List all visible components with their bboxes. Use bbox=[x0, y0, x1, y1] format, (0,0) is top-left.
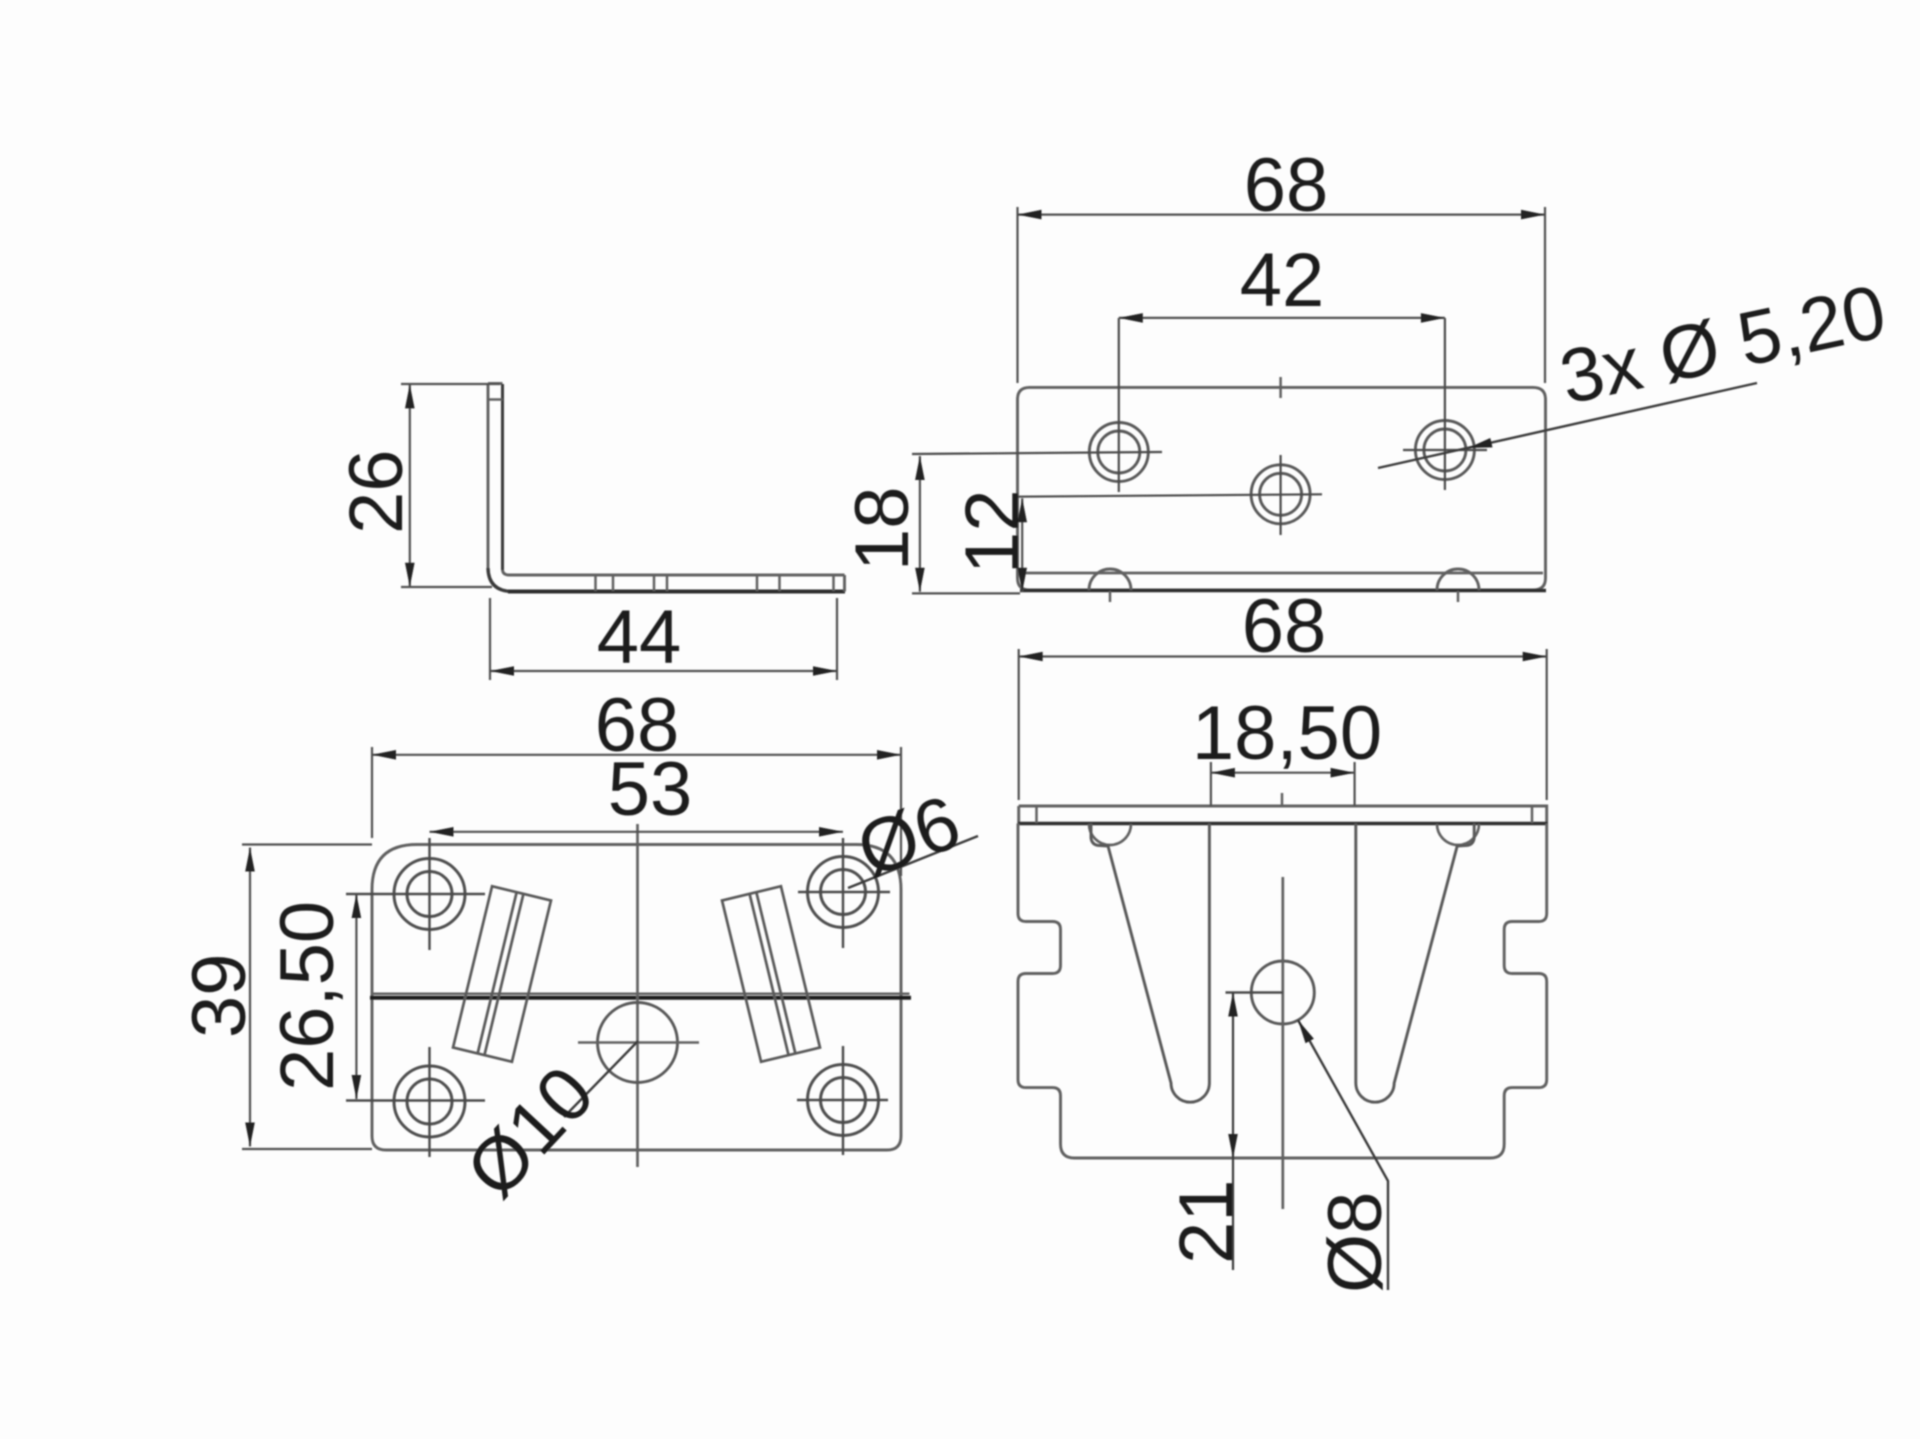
svg-text:Ø8: Ø8 bbox=[1313, 1192, 1398, 1293]
svg-text:Ø10: Ø10 bbox=[450, 1051, 610, 1214]
svg-text:21: 21 bbox=[1164, 1179, 1249, 1264]
svg-text:26: 26 bbox=[334, 449, 419, 534]
svg-text:3x Ø 5,20: 3x Ø 5,20 bbox=[1553, 269, 1893, 421]
svg-text:44: 44 bbox=[597, 595, 682, 680]
svg-text:26,50: 26,50 bbox=[265, 901, 350, 1091]
svg-text:18,50: 18,50 bbox=[1192, 691, 1382, 776]
svg-text:68: 68 bbox=[1244, 143, 1329, 228]
svg-text:39: 39 bbox=[177, 953, 262, 1038]
svg-text:42: 42 bbox=[1240, 238, 1325, 323]
svg-text:18: 18 bbox=[840, 486, 925, 571]
svg-text:53: 53 bbox=[608, 747, 693, 832]
svg-text:12: 12 bbox=[950, 489, 1035, 574]
svg-text:68: 68 bbox=[1242, 584, 1327, 669]
svg-text:Ø6: Ø6 bbox=[847, 779, 971, 894]
